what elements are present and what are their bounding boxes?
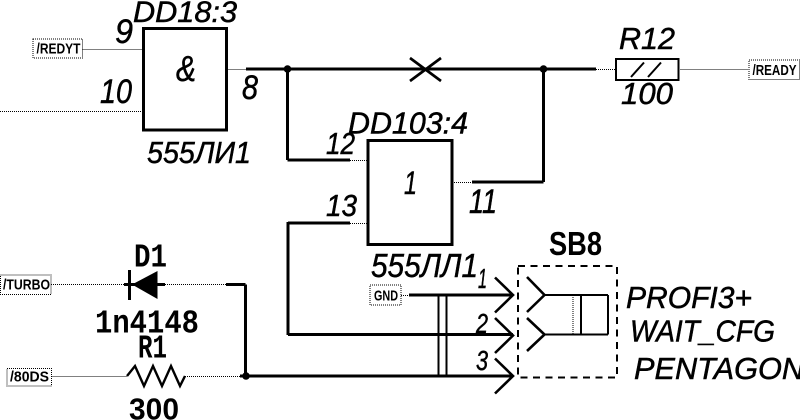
svg-text:11: 11 [469, 183, 497, 221]
svg-text:D1: D1 [134, 240, 167, 277]
svg-text:8: 8 [242, 69, 258, 107]
svg-text:DD18:3: DD18:3 [133, 0, 237, 29]
svg-text:3: 3 [476, 345, 488, 376]
svg-text:PROFI3+: PROFI3+ [626, 280, 752, 315]
svg-text:555ЛЛ1: 555ЛЛ1 [371, 247, 478, 284]
svg-text:/TURBO: /TURBO [3, 277, 50, 294]
svg-text:SB8: SB8 [549, 225, 602, 262]
svg-text:12: 12 [326, 126, 355, 161]
svg-text:9: 9 [115, 13, 133, 51]
svg-text:2: 2 [475, 308, 488, 339]
svg-text:300: 300 [129, 392, 179, 420]
svg-text:13: 13 [326, 188, 357, 223]
svg-text:R1: R1 [138, 331, 167, 368]
svg-text:100: 100 [621, 76, 673, 111]
svg-text:PENTAGON: PENTAGON [634, 351, 800, 386]
svg-text:/80DS: /80DS [10, 369, 49, 386]
svg-text:1: 1 [404, 165, 417, 201]
svg-text:555ЛИ1: 555ЛИ1 [147, 135, 251, 170]
svg-text:/READY: /READY [753, 62, 797, 79]
svg-text:/REDYT: /REDYT [37, 41, 81, 58]
svg-text:GND: GND [374, 288, 398, 305]
svg-text:&: & [176, 48, 196, 89]
svg-text:WAIT_CFG: WAIT_CFG [630, 314, 775, 349]
svg-text:R12: R12 [619, 21, 675, 56]
svg-text:10: 10 [100, 73, 132, 111]
svg-text:DD103:4: DD103:4 [348, 106, 468, 141]
svg-text:1: 1 [478, 263, 487, 294]
